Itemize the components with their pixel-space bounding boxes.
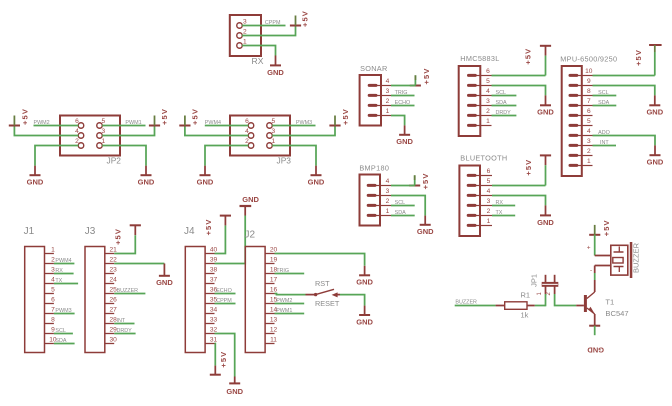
svg-text:+5V: +5V bbox=[300, 10, 309, 27]
+5V supply at HMC5883L bbox=[524, 46, 552, 76]
svg-text:BUZZER: BUZZER bbox=[117, 288, 139, 294]
wire CPPM net from J4 pin 35 bbox=[215, 303, 236, 305]
svg-text:SDA: SDA bbox=[598, 100, 609, 106]
svg-text:34: 34 bbox=[210, 307, 218, 314]
svg-text:+5V: +5V bbox=[191, 108, 200, 125]
net label SCL bbox=[395, 200, 406, 206]
wire SDA net from J1 pin 10 bbox=[54, 343, 75, 345]
net label TRIG bbox=[395, 90, 408, 96]
+5V supply at MPU bbox=[634, 45, 661, 76]
svg-text:37: 37 bbox=[210, 277, 218, 284]
svg-text:23: 23 bbox=[110, 267, 118, 274]
wire GND net from J3 pin 22 bbox=[114, 263, 164, 265]
svg-text:JP3: JP3 bbox=[277, 156, 292, 166]
svg-text:2: 2 bbox=[75, 138, 79, 145]
wire +5V net to JP3 pin 3 bbox=[272, 126, 335, 136]
wire +5V net from J4 pin 31 bbox=[214, 344, 217, 366]
svg-text:SDA: SDA bbox=[496, 100, 507, 106]
+5V supply left of JP3 bbox=[179, 108, 199, 125]
net label TRIG bbox=[276, 268, 289, 274]
ground right of J2 pin 20 bbox=[356, 266, 373, 287]
net label CPPM bbox=[216, 298, 232, 304]
svg-text:RST: RST bbox=[315, 279, 330, 288]
+5V supply at SONAR bbox=[410, 68, 431, 86]
net label CPPM bbox=[265, 20, 281, 26]
svg-text:J4: J4 bbox=[184, 226, 195, 237]
svg-text:3: 3 bbox=[102, 128, 106, 135]
svg-text:2: 2 bbox=[386, 198, 390, 205]
wire ADO net from MPU pin 4 bbox=[593, 136, 656, 146]
svg-text:6: 6 bbox=[75, 118, 79, 125]
svg-text:GND: GND bbox=[226, 387, 243, 396]
connector MPU-6500/9250 bbox=[560, 55, 617, 177]
svg-text:+5V: +5V bbox=[524, 48, 533, 65]
svg-text:GND: GND bbox=[267, 68, 284, 77]
wire BUZZER net to R1 bbox=[455, 305, 496, 307]
connector JP3 bbox=[230, 116, 291, 166]
svg-text:10: 10 bbox=[585, 68, 593, 75]
net label BUZZER bbox=[117, 288, 139, 294]
connector JP2 bbox=[60, 116, 121, 166]
wire collector net (green segment) bbox=[594, 273, 596, 280]
net label SDA bbox=[55, 338, 66, 344]
svg-text:JP2: JP2 bbox=[107, 156, 122, 166]
net label ECHO bbox=[216, 288, 232, 294]
connector J4 bbox=[184, 226, 217, 353]
svg-text:3: 3 bbox=[486, 98, 490, 105]
wire SCL net from BMP180 pin 2 bbox=[391, 205, 415, 207]
net label PWM1 bbox=[276, 308, 292, 314]
svg-text:ECHO: ECHO bbox=[216, 288, 232, 294]
wire +5V net from MPU pin 10 bbox=[593, 75, 655, 77]
wire RX net from BLUETOOTH pin 3 bbox=[492, 205, 515, 207]
svg-text:4: 4 bbox=[587, 128, 591, 135]
svg-text:+5V: +5V bbox=[421, 173, 430, 190]
svg-text:GND: GND bbox=[242, 195, 259, 204]
ground below MPU pin 4 bbox=[647, 145, 664, 166]
wire DRDY net from J3 pin 29 bbox=[114, 333, 135, 335]
svg-text:ECHO: ECHO bbox=[395, 100, 411, 106]
svg-text:1k: 1k bbox=[521, 311, 529, 320]
net label INT bbox=[117, 318, 126, 324]
+5V supply above J3 bbox=[114, 225, 141, 245]
svg-text:5: 5 bbox=[102, 118, 106, 125]
wire PWM2 net from J2 pin 15 bbox=[275, 303, 305, 305]
wire BUZZER net from J3 pin 25 bbox=[114, 293, 145, 295]
net label SDA bbox=[598, 100, 609, 106]
svg-text:2: 2 bbox=[486, 108, 490, 115]
wire TX net from BLUETOOTH pin 2 bbox=[492, 215, 515, 217]
svg-text:BC547: BC547 bbox=[605, 309, 628, 318]
svg-text:GND: GND bbox=[197, 178, 214, 187]
svg-text:SCL: SCL bbox=[395, 200, 406, 206]
wire GND net from JP3 pin 2 bbox=[205, 146, 248, 166]
svg-text:GND: GND bbox=[537, 108, 554, 117]
wire ECHO net from SONAR pin 2 bbox=[391, 105, 415, 107]
svg-text:JP1: JP1 bbox=[530, 274, 539, 287]
svg-text:33: 33 bbox=[210, 317, 218, 324]
wire CPPM net from RX pin 3 bbox=[242, 25, 285, 27]
wire R1 to JP1 pin 1 bbox=[535, 305, 546, 307]
svg-text:+5V: +5V bbox=[602, 219, 611, 236]
ground below BLUETOOTH bbox=[537, 205, 554, 226]
wire GND net from SONAR pin 1 bbox=[391, 116, 405, 126]
svg-text:31: 31 bbox=[210, 337, 218, 344]
ground right of RESET switch bbox=[356, 306, 373, 327]
wire INT net from J3 pin 28 bbox=[114, 323, 134, 325]
svg-text:2: 2 bbox=[487, 208, 491, 215]
connector BMP180 bbox=[359, 164, 391, 226]
net label TX bbox=[55, 278, 62, 284]
svg-text:DRDY: DRDY bbox=[496, 110, 512, 116]
svg-text:6: 6 bbox=[487, 168, 491, 175]
svg-text:1: 1 bbox=[587, 158, 591, 165]
+5V supply right of JP3 bbox=[329, 108, 349, 125]
ground below JP3 right bbox=[308, 166, 325, 187]
svg-text:1: 1 bbox=[51, 247, 55, 254]
svg-text:BMP180: BMP180 bbox=[359, 164, 389, 173]
net label DRDY bbox=[496, 110, 512, 116]
svg-text:4: 4 bbox=[487, 188, 491, 195]
svg-text:TX: TX bbox=[496, 210, 503, 216]
switch RESET bbox=[306, 279, 341, 308]
ground below BMP180 bbox=[417, 216, 434, 237]
wire +5V to buzzer + bbox=[594, 235, 596, 256]
svg-text:1: 1 bbox=[102, 138, 106, 145]
wire TRIG net from J2 pin 18 bbox=[275, 273, 305, 275]
wire SDA net from MPU pin 7 bbox=[593, 105, 617, 107]
connector J3 bbox=[85, 226, 117, 353]
svg-text:6: 6 bbox=[245, 118, 249, 125]
svg-text:CPPM: CPPM bbox=[265, 20, 281, 26]
svg-text:1: 1 bbox=[386, 108, 390, 115]
svg-text:1: 1 bbox=[486, 118, 490, 125]
svg-text:1: 1 bbox=[386, 208, 390, 215]
ground below MPU pin 9 bbox=[646, 95, 663, 116]
svg-text:38: 38 bbox=[210, 267, 218, 274]
connector BLUETOOTH bbox=[459, 154, 507, 237]
svg-text:4: 4 bbox=[75, 128, 79, 135]
svg-text:4: 4 bbox=[245, 128, 249, 135]
net label RX bbox=[55, 268, 63, 274]
connector RX bbox=[230, 15, 264, 66]
svg-text:+5V: +5V bbox=[524, 159, 533, 176]
svg-text:PWM3: PWM3 bbox=[55, 308, 71, 314]
svg-text:MPU-6500/9250: MPU-6500/9250 bbox=[560, 55, 617, 64]
svg-text:26: 26 bbox=[110, 297, 118, 304]
svg-text:BLUETOOTH: BLUETOOTH bbox=[460, 154, 507, 163]
wire RST net from J2 pin 16 bbox=[275, 294, 306, 295]
svg-text:SDA: SDA bbox=[55, 338, 66, 344]
wire PWM2 net to JP2 pin 6 bbox=[34, 125, 79, 127]
svg-text:BUZZER: BUZZER bbox=[455, 300, 477, 306]
ground below JP3 left bbox=[197, 166, 214, 187]
net label PWM3 bbox=[296, 120, 312, 126]
svg-text:24: 24 bbox=[110, 277, 118, 284]
wire buzzer + terminal bbox=[595, 255, 611, 257]
net label PWM2 bbox=[34, 120, 50, 126]
svg-text:12: 12 bbox=[270, 327, 278, 334]
svg-text:5: 5 bbox=[51, 287, 55, 294]
svg-text:SCL: SCL bbox=[496, 90, 507, 96]
wire GND net from BMP180 pin 3 bbox=[391, 196, 425, 216]
wire TRIG net from SONAR pin 3 bbox=[391, 95, 415, 97]
svg-text:+5V: +5V bbox=[114, 228, 123, 245]
svg-text:6: 6 bbox=[486, 68, 490, 75]
wire PWM3 net to JP3 pin 5 bbox=[272, 125, 315, 127]
connector J2 bbox=[245, 230, 278, 353]
svg-text:CPPM: CPPM bbox=[216, 298, 232, 304]
svg-text:1: 1 bbox=[487, 218, 491, 225]
wire ECHO net from J4 pin 36 bbox=[215, 293, 236, 295]
svg-text:1: 1 bbox=[272, 138, 276, 145]
svg-text:9: 9 bbox=[587, 78, 591, 85]
svg-text:3: 3 bbox=[272, 128, 276, 135]
wire INT net from MPU pin 3 bbox=[593, 145, 617, 147]
svg-text:30: 30 bbox=[110, 337, 118, 344]
svg-text:+5V: +5V bbox=[422, 68, 431, 85]
ground below HMC5883L bbox=[537, 95, 554, 116]
wire PWM4 net from J1 pin 2 bbox=[54, 263, 75, 265]
svg-text:+5V: +5V bbox=[634, 49, 643, 66]
wire GND net from JP2 pin 2 bbox=[35, 146, 78, 166]
wire JP1 pin 1 down to R1 net bbox=[545, 294, 547, 306]
svg-text:3: 3 bbox=[386, 88, 390, 95]
wire +5V net from BMP180 pin 4 bbox=[391, 185, 415, 187]
net label BUZZER bbox=[455, 300, 477, 306]
svg-text:6: 6 bbox=[51, 297, 55, 304]
svg-text:4: 4 bbox=[486, 88, 490, 95]
+5V supply at BMP180 bbox=[409, 173, 430, 190]
wire GND net from RX pin 1 bbox=[242, 46, 275, 56]
+5V supply left of JP2 bbox=[9, 108, 30, 125]
svg-text:DRDY: DRDY bbox=[117, 328, 133, 334]
wire DRDY net from HMC5883L pin 2 bbox=[492, 115, 517, 117]
wire buzzer - terminal to T1 collector bbox=[595, 266, 611, 274]
wire PWM4 net to JP3 pin 6 bbox=[205, 125, 249, 127]
svg-text:5: 5 bbox=[272, 118, 276, 125]
net label SCL bbox=[598, 90, 609, 96]
+5V supply above buzzer bbox=[589, 219, 611, 236]
wire +5V net to JP2 pin 4 bbox=[14, 126, 78, 136]
wire GND net from BLUETOOTH pin 4 bbox=[492, 196, 546, 206]
svg-text:GND: GND bbox=[138, 178, 155, 187]
wire GND net from HMC5883L pin 5 bbox=[492, 86, 546, 96]
wire PWM1 net to JP2 pin 5 bbox=[102, 125, 145, 127]
svg-text:+5V: +5V bbox=[219, 351, 228, 368]
ground at RX bbox=[267, 56, 284, 77]
svg-text:RX: RX bbox=[252, 56, 264, 66]
svg-text:J3: J3 bbox=[85, 226, 96, 237]
net label PWM2 bbox=[276, 298, 292, 304]
connector J1 bbox=[24, 226, 57, 353]
svg-text:+5V: +5V bbox=[21, 108, 30, 125]
net label PWM1 bbox=[125, 120, 141, 126]
svg-text:SCL: SCL bbox=[598, 90, 609, 96]
svg-text:4: 4 bbox=[386, 78, 390, 85]
svg-text:+5V: +5V bbox=[160, 108, 169, 125]
svg-text:6: 6 bbox=[587, 108, 591, 115]
svg-text:3: 3 bbox=[386, 188, 390, 195]
+5V supply above J4 bbox=[204, 216, 231, 236]
svg-text:2: 2 bbox=[587, 148, 591, 155]
svg-text:-: - bbox=[590, 267, 592, 274]
svg-text:RESET: RESET bbox=[315, 299, 340, 308]
svg-text:BUZZER: BUZZER bbox=[632, 242, 641, 273]
wire PWM1 net from J2 pin 14 bbox=[275, 313, 305, 315]
wire RX net from J1 pin 3 bbox=[54, 273, 74, 275]
wire +5V net from J3 pin 21 bbox=[114, 235, 135, 253]
net label INT bbox=[600, 140, 609, 146]
svg-text:J2: J2 bbox=[245, 230, 256, 241]
wire SCL net from HMC5883L pin 4 bbox=[492, 95, 517, 97]
jumper JP1 bbox=[530, 274, 559, 296]
wire GND net from J4 pin 39 bbox=[215, 216, 246, 264]
svg-text:SCL: SCL bbox=[55, 328, 66, 334]
svg-text:GND: GND bbox=[417, 227, 434, 236]
resistor R1 bbox=[496, 291, 535, 320]
net label SDA bbox=[395, 210, 406, 216]
+5V supply below J4 (flipped) bbox=[210, 351, 228, 375]
wire SCL net from MPU pin 8 bbox=[593, 95, 617, 97]
svg-text:1: 1 bbox=[243, 39, 247, 46]
svg-text:PWM3: PWM3 bbox=[296, 120, 312, 126]
wire SCL net from J1 pin 9 bbox=[54, 333, 73, 335]
wire +5V net from RX pin 2 bbox=[242, 26, 295, 36]
connector SONAR bbox=[360, 64, 391, 126]
svg-text:PWM2: PWM2 bbox=[34, 120, 50, 126]
svg-text:3: 3 bbox=[243, 19, 247, 26]
connector HMC5883L bbox=[459, 54, 500, 136]
svg-text:PWM4: PWM4 bbox=[55, 258, 71, 264]
svg-text:19: 19 bbox=[270, 257, 278, 264]
net label SCL bbox=[496, 90, 507, 96]
svg-text:2: 2 bbox=[245, 138, 249, 145]
wire from RESET switch to ground bbox=[340, 295, 365, 306]
svg-text:INT: INT bbox=[600, 140, 609, 146]
wire SDA net from HMC5883L pin 3 bbox=[492, 105, 517, 107]
svg-text:TRIG: TRIG bbox=[276, 268, 289, 274]
ground right of J3 bbox=[156, 264, 173, 288]
+5V supply at BLUETOOTH bbox=[524, 155, 551, 185]
svg-text:GND: GND bbox=[646, 108, 663, 117]
svg-text:TRIG: TRIG bbox=[395, 90, 408, 96]
svg-text:2: 2 bbox=[243, 29, 247, 36]
ground below J4 pin 32 bbox=[226, 377, 243, 396]
net label DRDY bbox=[117, 328, 133, 334]
svg-text:4: 4 bbox=[386, 178, 390, 185]
svg-text:HMC5883L: HMC5883L bbox=[460, 54, 499, 63]
svg-text:PWM1: PWM1 bbox=[276, 308, 292, 314]
svg-text:3: 3 bbox=[487, 198, 491, 205]
svg-text:+5V: +5V bbox=[341, 108, 350, 125]
wire +5V net from BLUETOOTH pin 5 bbox=[492, 185, 546, 187]
svg-text:GND: GND bbox=[587, 346, 604, 355]
svg-text:GND: GND bbox=[156, 278, 173, 287]
wire +5V net to JP3 pin 4 bbox=[185, 126, 249, 136]
wire GND net from JP3 pin 1 bbox=[272, 146, 316, 166]
net label TX bbox=[496, 210, 503, 216]
ground below T1 (flipped) bbox=[587, 326, 604, 355]
ground below SONAR bbox=[396, 125, 413, 146]
net label RX bbox=[496, 200, 504, 206]
svg-text:2: 2 bbox=[386, 98, 390, 105]
svg-text:R1: R1 bbox=[521, 291, 531, 300]
net label ADO bbox=[598, 130, 610, 136]
net label SDA bbox=[496, 100, 507, 106]
svg-text:7: 7 bbox=[587, 98, 591, 105]
ground below JP2 left bbox=[27, 166, 44, 187]
svg-text:PWM2: PWM2 bbox=[276, 298, 292, 304]
net label PWM3 bbox=[55, 308, 71, 314]
wire GND net from J4 pin 32 bbox=[215, 334, 235, 377]
svg-text:SONAR: SONAR bbox=[360, 64, 387, 73]
wire GND net from MPU pin 9 bbox=[593, 86, 655, 96]
ground above J2 (flipped) bbox=[240, 195, 260, 216]
svg-text:GND: GND bbox=[308, 178, 325, 187]
wire GND net from JP2 pin 1 bbox=[102, 146, 146, 166]
svg-text:13: 13 bbox=[270, 317, 278, 324]
svg-text:5: 5 bbox=[587, 118, 591, 125]
net label PWM4 bbox=[205, 120, 221, 126]
svg-text:3: 3 bbox=[587, 138, 591, 145]
svg-text:GND: GND bbox=[537, 218, 554, 227]
wire SDA net from BMP180 pin 1 bbox=[391, 215, 415, 217]
svg-text:5: 5 bbox=[487, 178, 491, 185]
wire PWM3 net from J1 pin 7 bbox=[54, 313, 75, 315]
ground below JP2 right bbox=[138, 166, 155, 187]
wire +5V net from SONAR pin 4 bbox=[391, 85, 415, 87]
+5V supply at RX bbox=[290, 10, 309, 27]
svg-text:RX: RX bbox=[55, 268, 63, 274]
wire +5V net from J4 pin 40 bbox=[215, 225, 226, 253]
svg-text:17: 17 bbox=[270, 277, 278, 284]
svg-text:8: 8 bbox=[587, 88, 591, 95]
svg-text:PWM4: PWM4 bbox=[205, 120, 221, 126]
svg-text:RX: RX bbox=[496, 200, 504, 206]
svg-text:INT: INT bbox=[117, 318, 126, 324]
svg-text:GND: GND bbox=[396, 137, 413, 146]
transistor T1 bbox=[576, 280, 628, 326]
net label SCL bbox=[55, 328, 66, 334]
+5V supply right of JP2 bbox=[149, 108, 169, 125]
svg-text:GND: GND bbox=[27, 178, 44, 187]
svg-text:PWM1: PWM1 bbox=[125, 120, 141, 126]
svg-text:GND: GND bbox=[647, 158, 664, 167]
svg-text:GND: GND bbox=[356, 317, 373, 326]
net label PWM4 bbox=[55, 258, 71, 264]
svg-text:+: + bbox=[587, 244, 591, 251]
svg-text:J1: J1 bbox=[24, 226, 35, 237]
svg-text:11: 11 bbox=[270, 337, 277, 344]
wire +5V net from HMC5883L pin 6 bbox=[492, 75, 546, 77]
svg-text:GND: GND bbox=[356, 278, 373, 287]
wire GND net from J2 pin 20 bbox=[275, 254, 365, 266]
wire TX net from J1 pin 4 bbox=[54, 283, 78, 285]
buzzer BUZZER bbox=[587, 242, 641, 278]
wire +5V net to JP2 pin 3 bbox=[102, 126, 154, 136]
svg-text:27: 27 bbox=[110, 307, 118, 314]
svg-text:SDA: SDA bbox=[395, 210, 406, 216]
svg-text:T1: T1 bbox=[605, 297, 614, 306]
svg-text:ADO: ADO bbox=[598, 130, 610, 136]
svg-text:8: 8 bbox=[51, 317, 55, 324]
svg-text:+5V: +5V bbox=[204, 219, 213, 236]
svg-text:5: 5 bbox=[486, 78, 490, 85]
wire JP1 pin 2 to T1 base bbox=[555, 294, 577, 306]
svg-text:TX: TX bbox=[55, 278, 62, 284]
net label ECHO bbox=[395, 100, 411, 106]
